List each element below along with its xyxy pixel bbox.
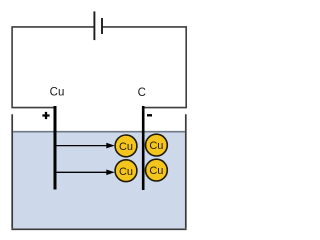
arrow 2 bbox=[56, 170, 115, 176]
battery long plate bbox=[93, 11, 95, 40]
Cu ion 3 (bottom-left) bbox=[115, 160, 137, 182]
arrow 1 bbox=[56, 143, 115, 149]
wire to right electrode bbox=[143, 107, 187, 109]
electrode C cathode bbox=[142, 106, 145, 190]
svg-text:Cu: Cu bbox=[149, 140, 163, 152]
minus sign bbox=[147, 114, 152, 116]
Cu ion 1 (top-left) bbox=[115, 135, 137, 157]
plus sign bbox=[42, 112, 49, 119]
wire battery to top-right bbox=[102, 27, 186, 108]
beaker bbox=[11, 114, 186, 229]
wire to left electrode bbox=[11, 107, 55, 109]
svg-text:C: C bbox=[138, 87, 146, 99]
Cu ion 4 (bottom-right) bbox=[146, 159, 168, 181]
battery short plate bbox=[101, 18, 103, 34]
liquid surface line bbox=[13, 131, 185, 133]
electrolyte liquid bbox=[13, 132, 185, 228]
svg-text:Cu: Cu bbox=[50, 87, 65, 99]
svg-text:Cu: Cu bbox=[149, 165, 163, 177]
svg-text:Cu: Cu bbox=[119, 166, 133, 178]
svg-text:Cu: Cu bbox=[119, 141, 133, 153]
wire top-left to battery bbox=[12, 27, 94, 108]
Cu ion 2 (top-right) bbox=[146, 134, 168, 156]
electrode Cu anode bbox=[54, 106, 57, 190]
